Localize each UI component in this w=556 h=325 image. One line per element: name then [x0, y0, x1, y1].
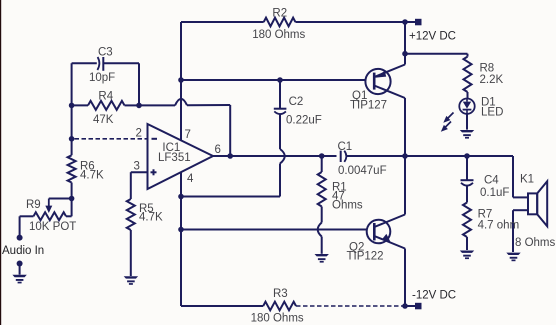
svg-text:6: 6: [215, 144, 221, 156]
svg-text:0.0047uF: 0.0047uF: [338, 165, 387, 177]
svg-text:TIP127: TIP127: [350, 99, 387, 111]
svg-text:C3: C3: [98, 47, 113, 59]
svg-text:+12V DC: +12V DC: [409, 30, 456, 42]
svg-text:R2: R2: [272, 7, 287, 19]
svg-text:4.7 ohm: 4.7 ohm: [478, 219, 520, 231]
svg-text:4.7K: 4.7K: [139, 212, 163, 224]
svg-text:4.7K: 4.7K: [80, 170, 104, 182]
svg-text:10pF: 10pF: [89, 72, 115, 84]
svg-text:R9: R9: [26, 199, 41, 211]
svg-text:TIP122: TIP122: [347, 250, 384, 262]
svg-text:0.22uF: 0.22uF: [286, 115, 322, 127]
svg-text:4: 4: [187, 173, 194, 185]
svg-text:LED: LED: [481, 107, 503, 119]
svg-text:8 Ohms: 8 Ohms: [515, 237, 556, 249]
svg-text:47K: 47K: [93, 114, 114, 126]
svg-text:R3: R3: [273, 288, 288, 300]
svg-text:R4: R4: [98, 90, 113, 102]
svg-text:Audio In: Audio In: [2, 245, 44, 257]
svg-text:3: 3: [134, 160, 140, 172]
svg-text:2: 2: [136, 128, 142, 140]
svg-text:K1: K1: [520, 173, 534, 185]
svg-text:Ohms: Ohms: [332, 200, 363, 212]
svg-text:C2: C2: [289, 96, 304, 108]
svg-text:R8: R8: [480, 62, 495, 74]
svg-text:7: 7: [185, 129, 191, 141]
svg-text:C4: C4: [484, 174, 499, 186]
svg-text:180 Ohms: 180 Ohms: [251, 312, 304, 324]
svg-text:180 Ohms: 180 Ohms: [252, 29, 305, 41]
svg-text:-12V DC: -12V DC: [412, 289, 456, 301]
svg-text:C1: C1: [338, 141, 353, 153]
svg-text:LF351: LF351: [158, 152, 191, 164]
svg-text:0.1uF: 0.1uF: [480, 187, 509, 199]
svg-text:2.2K: 2.2K: [480, 74, 504, 86]
svg-text:10K POT: 10K POT: [29, 221, 76, 233]
